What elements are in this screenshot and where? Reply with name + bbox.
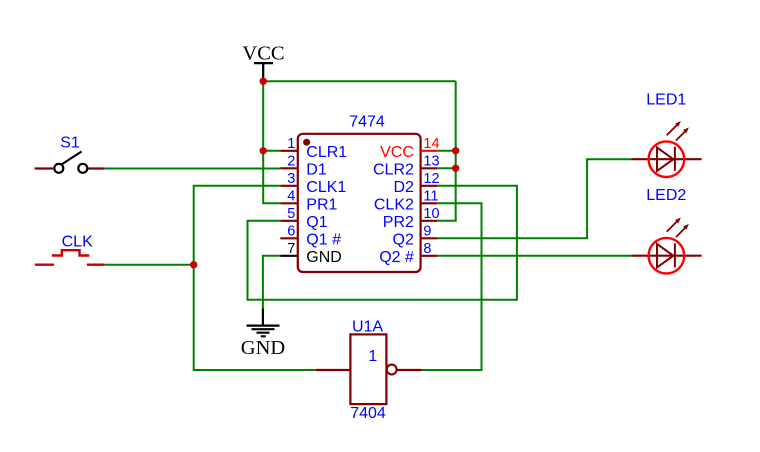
svg-text:6: 6 [287, 224, 295, 240]
wire VCC left vertical to PR1 [263, 81, 280, 203]
pin 1 indicator dot [303, 139, 310, 146]
wire GND pin7 down [263, 256, 280, 309]
svg-text:9: 9 [423, 224, 431, 240]
pin 9 stub [421, 237, 438, 239]
svg-text:D2: D2 [393, 179, 414, 196]
LED2 [632, 187, 702, 273]
svg-text:12: 12 [423, 171, 439, 187]
pin 7 stub (black GND pin) [280, 255, 298, 257]
svg-text:VCC: VCC [380, 144, 414, 161]
svg-text:PR1: PR1 [306, 197, 337, 214]
wire junction down to U1A input [194, 265, 316, 370]
pin 6 stub [280, 237, 298, 239]
svg-text:2: 2 [287, 154, 295, 170]
pin 1 stub [280, 150, 298, 152]
svg-text:3: 3 [287, 171, 295, 187]
svg-text:LED1: LED1 [646, 91, 686, 108]
pin 11 stub [421, 202, 438, 204]
svg-text:GND: GND [306, 249, 342, 266]
svg-text:8: 8 [423, 241, 431, 257]
wire CLK to junction [105, 264, 194, 266]
svg-text:Q1 #: Q1 # [306, 232, 341, 249]
ground [241, 309, 285, 360]
pin 14 stub (red VCC pin) [421, 150, 438, 152]
svg-text:CLK1: CLK1 [306, 179, 346, 196]
svg-text:GND: GND [241, 337, 285, 359]
svg-text:1: 1 [287, 136, 295, 152]
pin 8 stub [421, 255, 438, 257]
svg-text:U1A: U1A [352, 319, 383, 336]
junction dot CLK [190, 261, 197, 268]
wire Q2# pin8 to LED2 [437, 255, 631, 257]
svg-text:CLR1: CLR1 [306, 144, 347, 161]
svg-text:10: 10 [423, 206, 439, 222]
svg-text:CLR2: CLR2 [373, 162, 414, 179]
wire pin13 to vertical [437, 167, 455, 169]
junction dot VCC top [260, 78, 267, 85]
svg-text:13: 13 [423, 154, 439, 170]
wire Q2 pin9 to LED1 [437, 159, 631, 238]
svg-text:7: 7 [287, 241, 295, 257]
junction dot pin14 [452, 147, 459, 154]
svg-text:VCC: VCC [242, 42, 284, 64]
pin 4 stub [280, 202, 298, 204]
wire pin14 to vertical [437, 150, 455, 152]
wire S1 to D1 pin2 [105, 168, 281, 170]
svg-text:11: 11 [423, 189, 438, 205]
svg-text:Q2 #: Q2 # [379, 249, 414, 266]
svg-text:7404: 7404 [350, 405, 386, 422]
svg-text:4: 4 [287, 189, 295, 205]
svg-text:Q1: Q1 [306, 214, 327, 231]
svg-text:LED2: LED2 [646, 187, 686, 204]
wire VCC right vertical to PR2 [437, 81, 455, 221]
wire U1A output up to CLK2 pin11 [421, 203, 482, 370]
pin 13 stub [421, 167, 438, 169]
svg-text:CLK2: CLK2 [374, 197, 414, 214]
svg-text:Q2: Q2 [393, 232, 414, 249]
svg-text:14: 14 [423, 136, 439, 152]
svg-text:S1: S1 [60, 135, 80, 152]
svg-text:CLK: CLK [62, 233, 93, 250]
svg-text:PR2: PR2 [383, 214, 414, 231]
svg-text:D1: D1 [306, 162, 327, 179]
wire junction up to CLK1 pin3 [194, 186, 281, 265]
switch S1 [35, 135, 105, 173]
pin 3 stub [280, 185, 298, 187]
pin 5 stub [280, 220, 298, 222]
junction dot pin1 [260, 147, 267, 154]
IC U1 7474 [280, 113, 439, 272]
pin 12 stub [421, 185, 438, 187]
pin 2 stub [280, 167, 298, 169]
svg-text:1: 1 [368, 348, 377, 365]
pushbutton CLK [35, 233, 105, 264]
inverter U1A 7404 [316, 319, 421, 422]
pin 10 stub [421, 220, 438, 222]
wire Q1 pin5 to D2 pin12 [248, 186, 517, 300]
wire branch to CLR1 pin1 [263, 150, 280, 152]
svg-text:5: 5 [287, 206, 295, 222]
svg-text:7474: 7474 [349, 113, 385, 130]
LED1 [632, 91, 702, 177]
power VCC [242, 42, 284, 81]
junction dot pin13 [452, 165, 459, 172]
wire VCC top horizontal [263, 80, 456, 82]
